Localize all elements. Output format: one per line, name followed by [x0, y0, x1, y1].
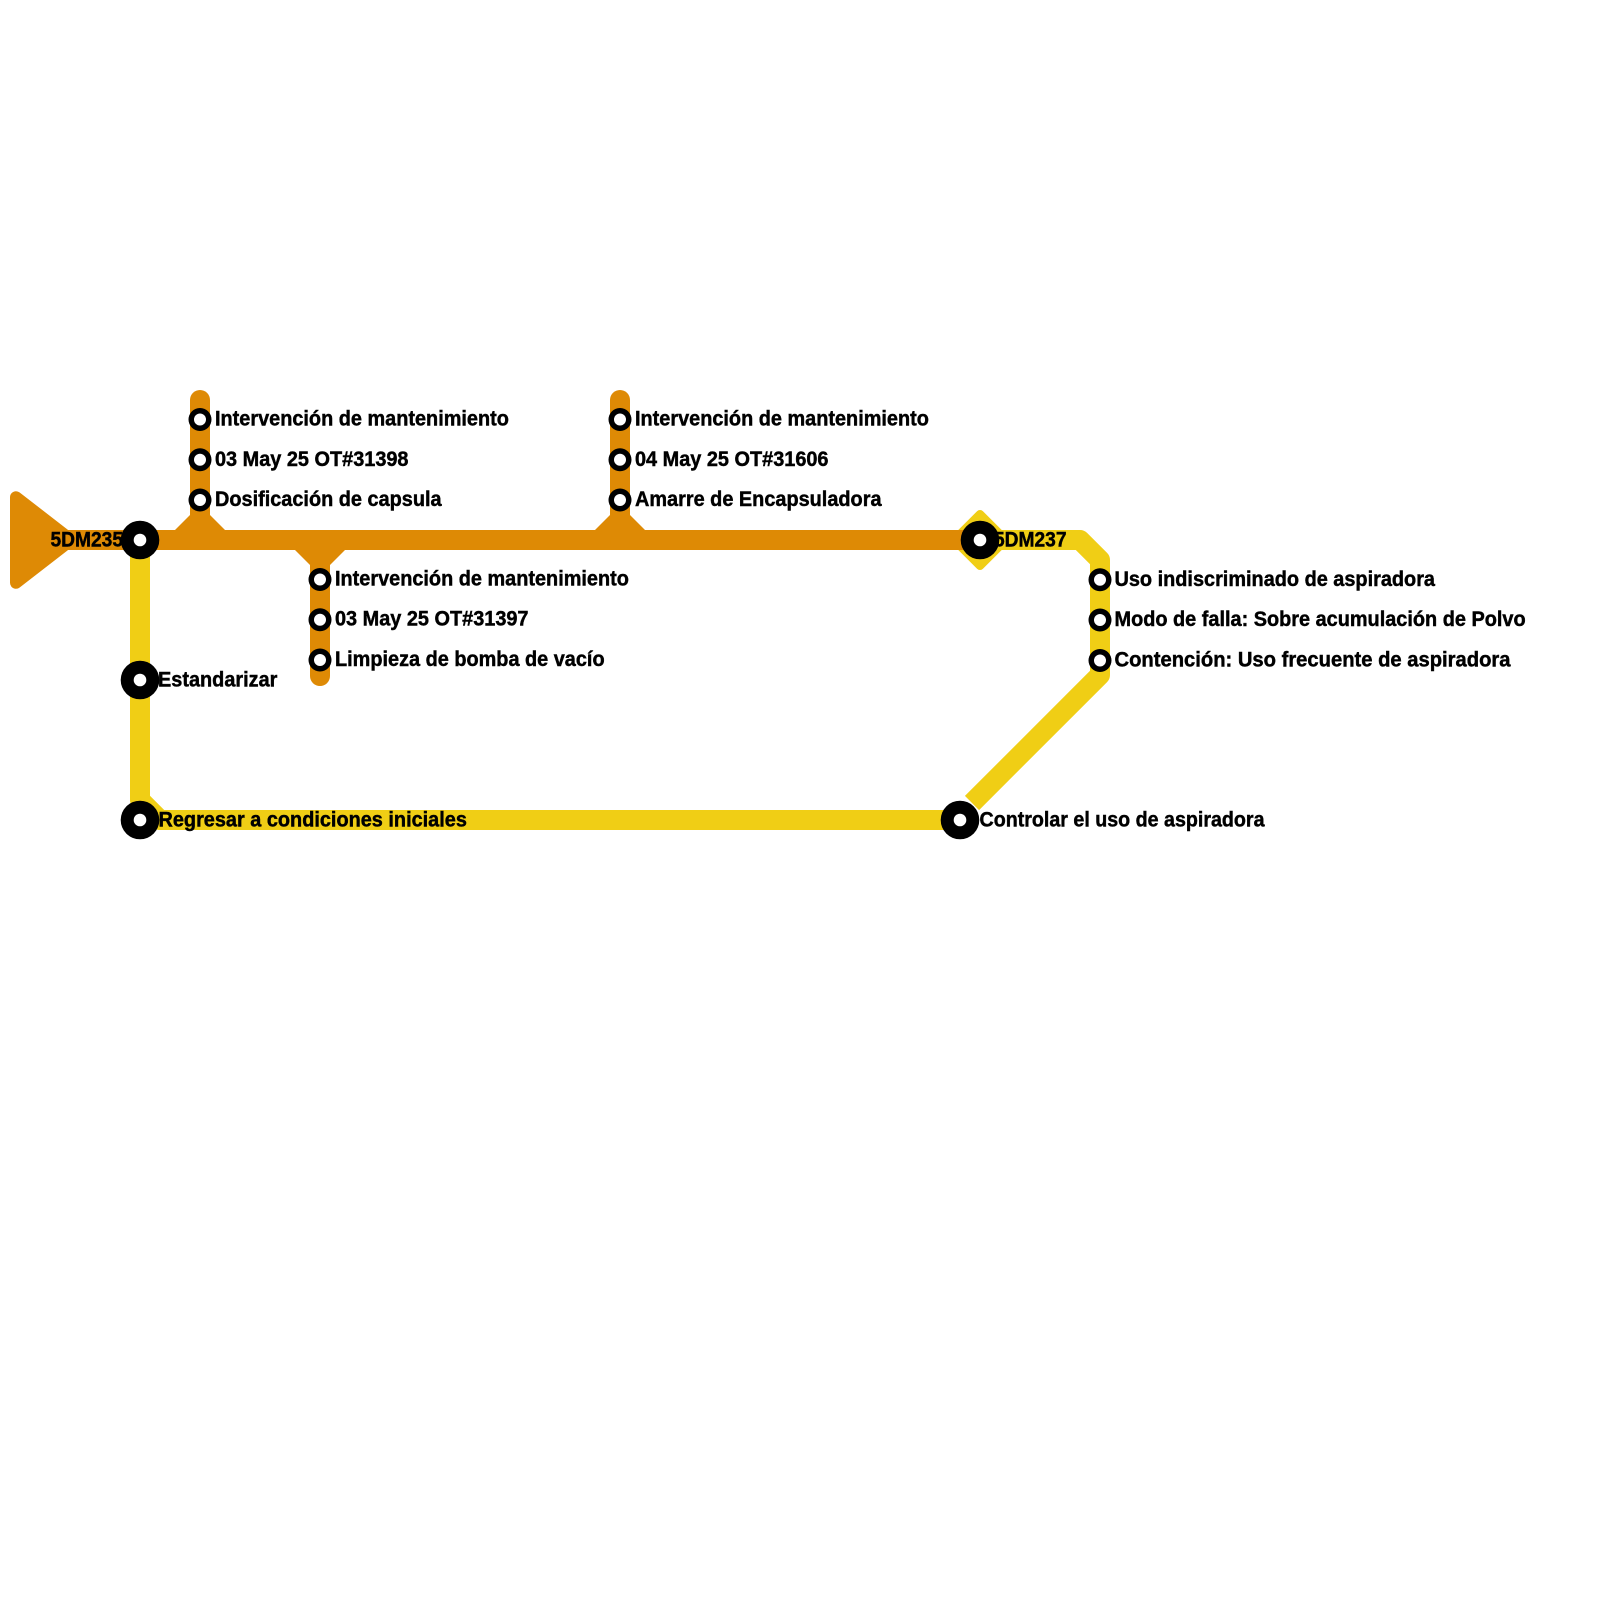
svg-text:03 May 25 OT#31398: 03 May 25 OT#31398 [215, 448, 409, 471]
svg-text:Estandarizar: Estandarizar [158, 669, 277, 692]
junction fillet branch x=320 [295, 550, 345, 565]
yellow terminus diamond at 5DM237 [954, 514, 1006, 566]
junction fillet branch x=620 [595, 515, 645, 530]
svg-text:Intervención de mantenimiento: Intervención de mantenimiento [335, 568, 629, 591]
stop Contencion [1089, 649, 1112, 672]
svg-text:Dosificación de capsula: Dosificación de capsula [215, 488, 442, 511]
stop Uso indiscriminado de aspiradora [1089, 568, 1112, 591]
station Regresar a condiciones iniciales [121, 801, 160, 840]
stop 03 May 25 OT#31397 [309, 608, 332, 631]
stop 04 May 25 OT#31606 [609, 448, 632, 471]
station 5DM237 [961, 521, 1000, 560]
stop Dosificacion de capsula [189, 489, 212, 512]
svg-text:Intervención de mantenimiento: Intervención de mantenimiento [635, 408, 929, 431]
svg-text:Uso indiscriminado de aspirado: Uso indiscriminado de aspiradora [1115, 568, 1436, 591]
svg-text:04 May 25 OT#31606: 04 May 25 OT#31606 [635, 448, 829, 471]
orange branch up at x=200 [190, 400, 210, 540]
svg-text:Amarre de Encapsuladora: Amarre de Encapsuladora [635, 488, 882, 511]
orange branch down at x=320 [310, 540, 330, 676]
stop Limpieza de bomba de vacio [309, 649, 332, 672]
svg-text:Intervención de mantenimiento: Intervención de mantenimiento [215, 408, 509, 431]
svg-text:Regresar a condiciones inicial: Regresar a condiciones iniciales [159, 809, 467, 832]
svg-text:03 May 25 OT#31397: 03 May 25 OT#31397 [335, 608, 529, 631]
svg-text:5DM235: 5DM235 [51, 529, 124, 552]
station 5DM235 [121, 521, 160, 560]
station Controlar el uso de aspiradora [941, 801, 980, 840]
svg-text:Modo de falla: Sobre acumulaci: Modo de falla: Sobre acumulación de Polv… [1115, 608, 1526, 631]
stop Modo de falla [1089, 609, 1112, 632]
svg-text:Controlar el uso de aspiradora: Controlar el uso de aspiradora [980, 809, 1265, 832]
svg-text:Limpieza de bomba de vacío: Limpieza de bomba de vacío [335, 648, 605, 671]
orange terminus arrow (left) [16, 497, 71, 583]
stop Intervencion branch2 [609, 408, 632, 431]
svg-text:Contención: Uso frecuente de a: Contención: Uso frecuente de aspiradora [1115, 649, 1511, 672]
yellow line bottom segment [140, 540, 960, 820]
orange main line 5DM235 to 5DM237 [60, 530, 980, 550]
station Estandarizar [121, 661, 160, 700]
orange branch up at x=620 [610, 400, 630, 540]
stop Intervencion branch3 [309, 568, 332, 591]
stop 03 May 25 OT#31398 [189, 448, 212, 471]
stop Intervencion branch1 [189, 408, 212, 431]
stop Amarre de Encapsuladora [609, 489, 632, 512]
svg-text:5DM237: 5DM237 [994, 529, 1067, 552]
yellow line (5DM237 to 5DM235 via bottom loop) [972, 540, 1100, 803]
junction fillet branch x=200 [175, 515, 225, 530]
